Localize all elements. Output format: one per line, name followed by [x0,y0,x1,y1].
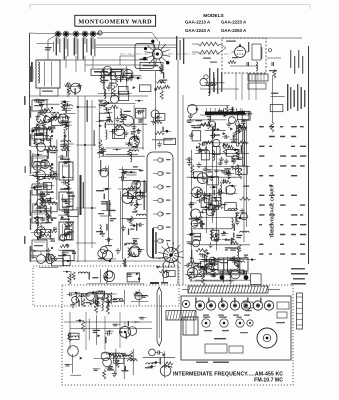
svg-text:GAA-2213 A: GAA-2213 A [185,20,211,25]
svg-text:GAA-2223 A: GAA-2223 A [221,20,247,25]
svg-text:FM-10.7 MC: FM-10.7 MC [254,378,283,384]
svg-text:MODELS: MODELS [203,13,224,19]
svg-text:MONTGOMERY WARD: MONTGOMERY WARD [78,19,152,26]
svg-text:GAA-2243 A: GAA-2243 A [185,28,211,33]
svg-text:GAA-2263 A: GAA-2263 A [221,28,247,33]
svg-text:TUBE VOLTAGE CHART: TUBE VOLTAGE CHART [270,185,275,238]
